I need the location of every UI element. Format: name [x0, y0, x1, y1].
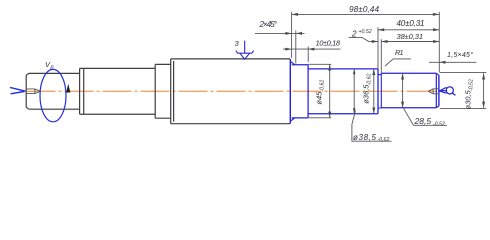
machined section A (o45) — [292, 65, 308, 118]
inner vertical dim line (o38.5 ref) — [353, 69, 355, 114]
svg-text:ø45: ø45 — [314, 91, 323, 105]
svg-text:10±0,18: 10±0,18 — [316, 38, 341, 47]
dimension 10±0,18 — [283, 47, 341, 63]
svg-text:ø30,5: ø30,5 — [463, 89, 472, 109]
svg-text:-0,52: -0,52 — [433, 121, 445, 127]
shaft section S2b (collar step) — [155, 64, 171, 118]
step face / groove left wall — [377, 69, 379, 114]
machined right section (o30.5) — [381, 73, 436, 108]
right end chamfer 1.5x45 — [436, 73, 439, 108]
right center hole — [428, 89, 439, 94]
svg-text:3: 3 — [235, 39, 240, 48]
shaft section S1 (left small journal) — [26, 73, 79, 109]
dimension 2+0,52 (groove width) — [349, 37, 378, 41]
feed arrow (left) — [10, 87, 26, 93]
right end face — [438, 75, 440, 106]
leader o38,5 (bottom) — [352, 111, 392, 142]
svg-text:40±0,31: 40±0,31 — [397, 19, 425, 28]
diameter o45 dimension (vertical) — [308, 64, 331, 118]
svg-text:38±0,31: 38±0,31 — [397, 32, 424, 41]
roughness symbol with 3 — [236, 41, 254, 60]
svg-text:28,5: 28,5 — [414, 116, 432, 126]
svg-text:-0,62: -0,62 — [378, 137, 390, 143]
dimension 38±0,31 — [381, 39, 439, 73]
diameter o36,5 dimension (vertical) — [373, 69, 375, 114]
svg-text:R1: R1 — [395, 48, 404, 57]
chamfer 2x45 on section A — [290, 61, 295, 121]
diameter o30,5 dimension (far right) — [440, 73, 486, 109]
svg-text:-0,52: -0,52 — [468, 79, 474, 91]
machined section B (o36.5) — [308, 69, 378, 114]
dimension 28,5 (right section) — [402, 73, 404, 108]
svg-text:+0,52: +0,52 — [359, 29, 372, 35]
svg-text:2×45°: 2×45° — [259, 20, 278, 29]
groove (2 wide, o28.5 neck) — [378, 73, 381, 108]
fillet R1 leader — [385, 59, 411, 66]
dimension 40±0,31 — [378, 27, 439, 69]
machined face of collar (blue) — [289, 59, 291, 124]
svg-text:ø38,5: ø38,5 — [353, 133, 377, 142]
svg-text:98±0,44: 98±0,44 — [349, 5, 379, 14]
view A arrow — [440, 87, 456, 96]
svg-text:-0,62: -0,62 — [367, 73, 373, 85]
svg-text:2: 2 — [351, 29, 357, 38]
svg-text:1,5×45°: 1,5×45° — [447, 51, 473, 59]
shaft section S3 (large collar) — [171, 59, 290, 124]
dimension 1,5x45 (right chamfer) — [429, 61, 477, 63]
dimension 98±0,44 — [292, 12, 440, 73]
centerline — [27, 90, 441, 92]
shaft section S2 — [80, 68, 156, 114]
svg-text:ø36,5: ø36,5 — [362, 84, 371, 104]
rotation arrowhead — [66, 84, 70, 93]
dimension 2x45 (chamfer) — [255, 31, 305, 64]
left center hole — [27, 89, 41, 94]
rotation ellipse — [40, 69, 66, 121]
svg-text:-0,62: -0,62 — [319, 80, 325, 92]
